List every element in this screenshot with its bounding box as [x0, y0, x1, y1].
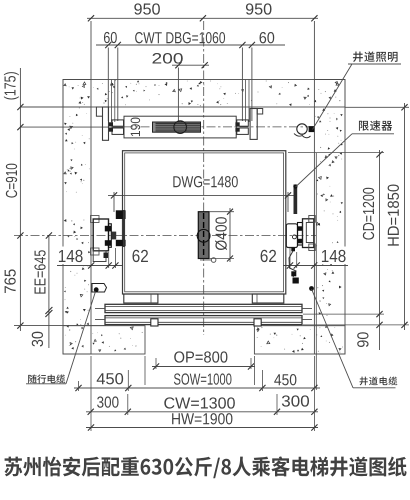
dimension 450 SOW=1000 450 — [74, 370, 320, 391]
circle phi400 — [197, 229, 210, 242]
counterweight rail bracket left — [96, 107, 108, 140]
front wall right segment — [254, 326, 345, 354]
dimension 148,62 left — [56, 247, 148, 269]
leader governor — [296, 134, 395, 187]
label suixing dianlan — [28, 374, 65, 383]
dimension EE=645 and 30 — [32, 232, 53, 348]
dimension OP=800 — [152, 351, 255, 369]
rail extension lines to mid dims — [109, 248, 297, 268]
counterweight rail lines through wall — [111, 80, 249, 123]
dimension CD=1200 and 90 — [288, 150, 409, 350]
hoistway top wall — [63, 80, 345, 108]
dimension DWG=1480 — [108, 176, 296, 212]
title text — [5, 456, 407, 478]
counterweight horizontal centerline — [124, 126, 310, 128]
left dimension line (175) C=910 765 — [4, 68, 124, 331]
door guide clip left — [151, 319, 158, 326]
dimension HW=1900 — [86, 413, 318, 430]
dimension 200 (counterweight offset) — [152, 53, 209, 130]
small drain circle — [200, 258, 216, 263]
traveling cable bracket — [92, 284, 107, 293]
pit object bar — [198, 212, 209, 259]
car vertical centerline — [203, 21, 205, 335]
label 190 — [131, 118, 141, 137]
door guide clip right — [254, 319, 261, 326]
dimension phi400 — [209, 208, 234, 262]
counterweight rail bracket right — [250, 109, 263, 140]
dimension 950 + 950 top — [87, 3, 318, 79]
car guide rail assembly left — [91, 210, 126, 262]
extension line right inner — [315, 153, 317, 390]
shaft lighting lamp symbol — [294, 124, 314, 138]
counterweight filler block — [153, 122, 201, 132]
car door return panel left — [124, 294, 158, 303]
car horizontal centerline — [14, 234, 316, 236]
label xiansuqi — [359, 120, 392, 130]
front wall left segment — [63, 326, 145, 354]
wall extension lines bottom — [91, 356, 314, 431]
hoistway left wall — [63, 80, 91, 355]
dimension 300 CW=1300 300 — [86, 394, 318, 415]
dimension 62,148 right — [261, 247, 348, 269]
counterweight guide shoe left — [109, 120, 124, 134]
hoistway right wall — [314, 80, 345, 355]
leader shaft lighting — [313, 64, 402, 130]
governor rope plate — [293, 184, 297, 214]
counterweight frame — [124, 116, 236, 138]
car (cabin) outline — [123, 151, 286, 294]
leader traveling cable — [26, 292, 96, 384]
counterweight guide shoe right — [235, 120, 248, 134]
landing/car door sills — [95, 304, 312, 324]
leader shaft cable — [312, 289, 396, 388]
label jingdao dianlan — [360, 377, 398, 386]
car guide rail assembly right — [286, 216, 315, 284]
dimension HD=1850 — [345, 103, 409, 330]
label jingdao zhaoming — [353, 51, 398, 62]
shaft cable dot — [309, 286, 314, 291]
dimension 60 CWT DBG=1060 60 — [96, 32, 285, 121]
car door return panel right — [252, 294, 283, 303]
counterweight sheave circle — [174, 121, 187, 134]
